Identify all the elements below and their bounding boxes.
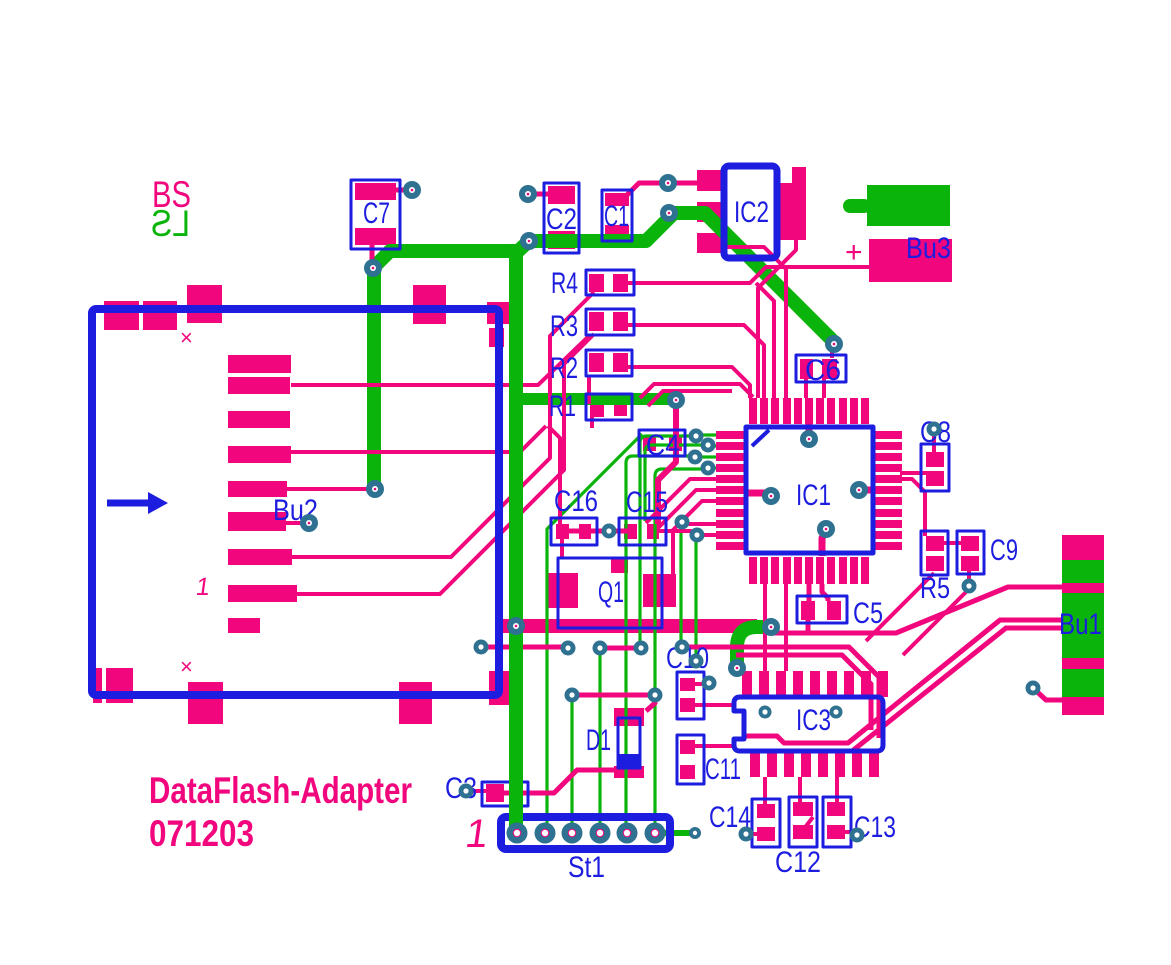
wire card finger2 to R3 left pad — [291, 336, 589, 385]
svg-text:R1: R1 — [549, 390, 576, 423]
capacitor C1 outline — [602, 190, 632, 241]
svg-text:C12: C12 — [775, 846, 821, 879]
wire C10 pad1 to via — [695, 682, 707, 686]
wire IC1 pin2 down to IC3 — [763, 584, 767, 671]
wire green St1 pad6 to via — [664, 830, 691, 836]
wire green via to St1 pad3 — [570, 699, 573, 829]
GREEN-THIN-LAYER — [547, 434, 716, 833]
IC1 top pin pads — [749, 398, 757, 424]
svg-text:071203: 071203 — [149, 813, 254, 854]
connector Bu3 green body — [867, 185, 950, 226]
wire arc over C4 second — [648, 391, 732, 406]
svg-text:R5: R5 — [920, 572, 950, 605]
wire R1 via down through C4 to C15 — [658, 400, 676, 524]
via centers white — [306, 180, 1036, 838]
wire R1 left pad stub — [590, 417, 594, 428]
wire green main vertical to St1 — [516, 213, 834, 840]
wire IC2 pad3 down to IC1 pin4 — [714, 247, 786, 398]
svg-text:Q1: Q1 — [598, 576, 624, 609]
IC3 top pin pads — [742, 671, 752, 697]
wire C1 top pad to IC2 pad1 — [626, 183, 697, 196]
wire C8 via stub — [932, 431, 936, 452]
wire arc over C4 to IC1 pin1 — [640, 384, 753, 398]
wire R3 left pad to card finger8 — [297, 334, 594, 594]
IC3 outline with key notch — [734, 697, 883, 751]
wire B2 IC3 to Bu1 — [851, 628, 1062, 752]
capacitor C14 outline — [752, 799, 780, 847]
wire IC1 inside left stub — [746, 490, 768, 497]
wire R2 right pad to IC1 pin1 — [628, 367, 750, 398]
IC3 bottom pin pads — [750, 751, 760, 777]
wire C5 left pad down — [806, 620, 811, 633]
header St1 outline — [501, 817, 670, 849]
IC2 left pads — [697, 170, 723, 191]
capacitor C5 pads — [801, 601, 815, 620]
connector Bu1 pads — [1062, 535, 1104, 560]
wire C6 right pad to IC1 — [822, 379, 826, 398]
capacitor C7 outline — [351, 180, 400, 249]
wire IC1 inside bottom stub — [822, 531, 826, 556]
capacitor C10 outline — [677, 672, 704, 719]
wire IC3 pin to C12 — [798, 777, 802, 803]
wire green via to pin row1 stub — [696, 433, 716, 436]
wire IC1 pin4 down to IC3 — [784, 584, 788, 671]
wire C6 left pad to IC1 — [804, 379, 808, 398]
IC2 right tab pad — [777, 183, 806, 240]
wire green via to St1 pad4 — [598, 652, 601, 829]
wire IC1 pin7 down to C5 right pad — [822, 584, 828, 601]
capacitor C5 outline — [797, 596, 847, 623]
resistor R2 pads — [589, 353, 604, 372]
wire green C4 row1 down to via — [640, 436, 694, 645]
capacitor C8 outline — [921, 444, 949, 491]
IC1 bottom pin pads — [749, 557, 757, 584]
svg-text:C15: C15 — [626, 486, 668, 519]
connector Bu1 green fingers — [1062, 560, 1104, 583]
connector Bu2 arrow — [107, 500, 150, 507]
resistor R1 pads — [590, 400, 604, 417]
wire green main vertical overlay — [509, 258, 523, 833]
svg-text:Bu1: Bu1 — [1059, 608, 1102, 641]
GREEN-THICK-LAYER — [374, 213, 834, 840]
svg-text:C7: C7 — [363, 197, 390, 230]
capacitor C3 pad — [486, 784, 504, 802]
resistor R4 pads — [589, 274, 604, 292]
wire IC2 tab pad down to IC1 — [758, 240, 796, 398]
wire IC1 left row9 to via — [682, 522, 716, 526]
wire R3 right pad to IC1 pin2 — [628, 325, 764, 398]
wire C11 pad1 to IC3 — [695, 744, 736, 748]
wire C15 right pad to via — [659, 531, 696, 536]
wire C9 via stub — [967, 571, 971, 583]
capacitor C10 pads — [680, 678, 695, 691]
IC2 outline — [724, 166, 777, 258]
wire wrap2 around IC3 — [736, 655, 871, 730]
wire trace A via to Bu1 — [772, 587, 1062, 633]
MAGENTA-TRACE-LAYER — [286, 183, 1062, 838]
capacitor C6 pads — [800, 359, 813, 379]
svg-text:R3: R3 — [550, 310, 578, 343]
diode D1 cathode band — [619, 754, 639, 768]
svg-text:C4: C4 — [646, 429, 680, 462]
VIA-LAYER — [300, 174, 1041, 844]
svg-text:IC3: IC3 — [796, 704, 831, 737]
svg-text:C9: C9 — [990, 534, 1018, 567]
capacitor C1 pads — [605, 193, 629, 206]
capacitor C16 pads — [556, 524, 569, 539]
transistor Q1 pads — [546, 573, 578, 608]
capacitor C15 pads — [624, 524, 637, 539]
wire IC1 left row7 to Q1 — [673, 501, 716, 574]
wire C13 via stub — [845, 830, 857, 834]
svg-text:C16: C16 — [554, 485, 598, 518]
capacitor C4 outline — [639, 430, 685, 456]
wire via to C2 top pad — [531, 192, 548, 197]
svg-text:C2: C2 — [546, 203, 577, 236]
wire green via to pin row4 stub — [708, 466, 716, 469]
capacitor C2 outline — [544, 183, 579, 253]
wire C10 pad2 to IC3 — [695, 703, 736, 707]
wire green via to pin row3 stub — [695, 455, 716, 458]
wire IC3 pin to C13 — [835, 777, 839, 803]
wire green C4 diagonal to St1 pad2 — [547, 434, 642, 833]
wire IC1 left row6 diagonal — [658, 490, 716, 528]
svg-text:IC2: IC2 — [734, 196, 769, 229]
connector Bu3 plus pad — [869, 239, 952, 282]
svg-text:+: + — [845, 236, 863, 269]
IC1 outline — [746, 427, 873, 553]
wire IC1 left row5 diagonal — [646, 479, 716, 523]
wire IC1 inside right stub — [856, 487, 873, 494]
resistor R1 outline — [586, 394, 632, 420]
wire C7 bottom pad down to via — [370, 245, 375, 263]
capacitor C11 outline — [677, 735, 704, 784]
OUTLINE-LAYER — [92, 166, 984, 849]
wire green C4 row3 long to St1 pad5 — [626, 456, 693, 833]
capacitor C11 pads — [680, 740, 695, 754]
header St1 pin pads — [507, 823, 666, 844]
resistor R3 pads — [589, 312, 604, 331]
wire card finger6 to via — [286, 521, 305, 525]
capacitor C12 outline — [789, 797, 817, 847]
wire B1 IC3 to Bu1 — [746, 620, 1062, 743]
svg-text:R4: R4 — [551, 267, 578, 300]
svg-text:R2: R2 — [550, 352, 578, 385]
wire R2 left pad stub — [587, 376, 591, 404]
capacitor C12 pads — [793, 802, 813, 816]
wire C9 via diagonal — [903, 589, 969, 655]
wire IC1 to R5 top pad — [902, 479, 925, 536]
capacitor C9 outline — [957, 531, 984, 574]
wire green via column x681 — [679, 526, 682, 644]
wire C16 left pad to Q1 — [560, 539, 564, 558]
capacitor C8 pads — [926, 452, 944, 467]
svg-text:IC1: IC1 — [796, 479, 831, 512]
wire C12 inner diagonal — [797, 817, 813, 838]
connector Bu2 outline — [92, 309, 499, 695]
wire IC1 left row10 to via — [697, 533, 716, 537]
svg-text:St1: St1 — [568, 851, 605, 884]
GREEN-OVERLAY-LAYER — [509, 258, 523, 833]
wire via to D1 top pad — [646, 695, 655, 711]
wire green J-curve at IC3 — [737, 627, 771, 667]
wire green R1 branch horizontal — [517, 393, 672, 405]
svg-text:C6: C6 — [805, 354, 841, 387]
wire C6 right pad to via — [830, 346, 834, 358]
svg-text:DataFlash-Adapter: DataFlash-Adapter — [149, 770, 412, 811]
wire card finger4 diagonal — [291, 426, 546, 452]
wire green via column x696 — [694, 539, 697, 657]
resistor R2 outline — [586, 350, 632, 376]
svg-text:D1: D1 — [586, 724, 611, 757]
capacitor C9 pads — [961, 536, 979, 551]
wire IC1 inside top stub — [806, 398, 813, 436]
capacitor C3 outline — [482, 782, 528, 806]
wire green C4 row4 to St1 pad6 — [655, 469, 706, 833]
IC1 right pin pads — [875, 431, 902, 439]
wire IC1 to C8 bottom pad — [900, 471, 926, 475]
resistor R3 outline — [586, 309, 634, 335]
capacitor C13 pads — [827, 802, 845, 816]
wire C16 to C15 row — [565, 529, 633, 534]
wire IC3 pin to C14 — [763, 777, 767, 804]
wire R5 bottom diagonal — [866, 573, 934, 641]
wire C3 via stub — [466, 789, 488, 793]
IC1 left pin pads — [716, 431, 744, 439]
wire C7 top pad to via — [396, 188, 409, 193]
connector Bu2 top pads — [104, 301, 139, 330]
IC1 chamfer — [752, 430, 769, 446]
svg-text:×: × — [180, 325, 193, 350]
svg-text:C11: C11 — [705, 753, 741, 786]
TEXT-LAYER — [149, 174, 1102, 884]
capacitor C7 pads — [355, 183, 396, 200]
connector Bu2 bottom pads — [93, 668, 102, 703]
via center dots — [308, 182, 861, 670]
wire IC1 pin6 down to C5 left pad — [807, 584, 812, 601]
wire R4 right pad to Bu3 plus — [628, 267, 869, 283]
svg-text:LS: LS — [151, 203, 190, 244]
transistor Q1 outline — [558, 558, 662, 628]
wire card finger5 to via — [287, 487, 369, 491]
wire thick power bar — [500, 619, 757, 633]
wire R4 left pad to card finger7 — [292, 292, 594, 557]
wire green C7 branch vertical — [374, 251, 516, 489]
wire R4 branch down to IC1 pin3 — [756, 283, 774, 398]
capacitor C14 pads — [757, 804, 775, 818]
wire vertical x560 to C16 — [548, 426, 560, 524]
wire row y695 — [572, 693, 655, 698]
PADS-LAYER — [93, 167, 1104, 841]
wire row y647 left — [481, 645, 568, 650]
wire wrap1 around IC3 — [682, 647, 879, 738]
wire C3 pad to D1 bottom pad — [504, 770, 614, 793]
wire Bu1 bottom via stub — [1033, 688, 1062, 700]
wire R5 to C9 bridge — [943, 541, 961, 545]
svg-text:C1: C1 — [604, 200, 629, 233]
wire C14 via stub — [746, 832, 757, 836]
resistor R5 pads — [926, 536, 944, 551]
capacitor C16 outline — [551, 518, 597, 545]
wire row y647 right — [600, 646, 641, 651]
svg-text:×: × — [180, 654, 193, 679]
capacitor C6 outline — [796, 355, 846, 382]
resistor R5 outline — [921, 531, 948, 575]
wire green C4 row2 down to C15 — [645, 445, 706, 521]
connector Bu2 card finger pads — [228, 355, 291, 373]
svg-text:C5: C5 — [853, 597, 883, 630]
resistor R4 outline — [586, 270, 634, 295]
capacitor C2 pads — [548, 186, 575, 204]
svg-text:Bu3: Bu3 — [906, 232, 951, 265]
vias standard — [300, 174, 1041, 843]
capacitor C15 outline — [619, 518, 666, 545]
diode D1 pads — [614, 708, 644, 726]
wire green via to pin row2 stub — [708, 444, 716, 447]
capacitor C13 outline — [823, 797, 851, 847]
capacitor C4 pads — [643, 435, 656, 451]
connector Bu3 green stub — [843, 199, 871, 213]
diode D1 outline — [618, 718, 640, 768]
